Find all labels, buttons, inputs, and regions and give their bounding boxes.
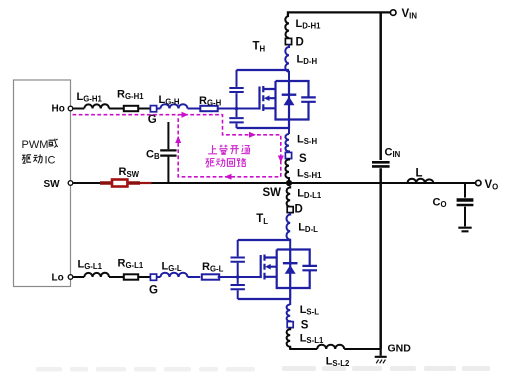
magenta drive loop dashed path bbox=[73, 115, 281, 177]
loop arrow left (bottom) bbox=[225, 174, 232, 180]
label 上管开通 bbox=[208, 145, 250, 155]
top wire to VIN bbox=[287, 12, 391, 16]
inductor LD-L1 bbox=[287, 186, 291, 207]
svg-text:S: S bbox=[301, 320, 309, 332]
wire Ho to LG-H1 bbox=[73, 108, 84, 110]
MOSFET TL symbol bbox=[261, 255, 277, 280]
svg-text:L: L bbox=[416, 168, 423, 180]
body diode TL bbox=[283, 263, 298, 274]
capacitor Co bbox=[457, 198, 474, 201]
resistor RG-H1 bbox=[124, 106, 138, 111]
pin circle SW bbox=[68, 181, 73, 186]
wire LG-L1 to RG-L1 bbox=[109, 276, 124, 278]
MOSFET TH gate cap column bbox=[229, 70, 243, 128]
MOSFET TH inner rect bbox=[276, 81, 309, 120]
VIN rail vertical bbox=[379, 12, 382, 349]
capacitor Co branch wire bbox=[464, 183, 466, 226]
inductor LG-H1 bbox=[84, 104, 109, 108]
wire G to LG-H bbox=[157, 108, 161, 110]
wire RG-L1 to node G lower bbox=[138, 276, 150, 278]
inductor LG-H bbox=[161, 104, 188, 108]
resistor RG-H bbox=[200, 106, 217, 111]
MOSFET TL bottom rail bbox=[238, 298, 291, 300]
inductor LG-L1 bbox=[84, 273, 109, 277]
wire LG-H1 to RG-H1 bbox=[109, 108, 124, 110]
PWM driver IC box bbox=[14, 80, 71, 287]
ground symbol at Co bbox=[458, 228, 471, 232]
resistor RSW body bbox=[112, 180, 127, 187]
body diode TH bbox=[282, 95, 297, 106]
junction dot gate TL bbox=[236, 275, 240, 279]
wire LG-H to RG-H bbox=[188, 108, 201, 110]
capacitor CIN bbox=[372, 162, 390, 166]
faint watermark row bbox=[36, 366, 490, 372]
Vo terminal circle bbox=[476, 180, 481, 185]
wire RG-L to gate network lower bbox=[218, 276, 261, 278]
node D square (lower) bbox=[287, 207, 293, 213]
loop arrow right (mid) bbox=[249, 132, 256, 138]
junction dot gate TH bbox=[235, 107, 239, 111]
wire LG-L to RG-L bbox=[188, 276, 201, 278]
VIN terminal circle bbox=[390, 10, 396, 16]
node S square (upper) bbox=[285, 152, 291, 158]
inductor LD-H bbox=[285, 44, 289, 81]
output cap TL (Cds) bbox=[302, 266, 317, 270]
svg-text:S: S bbox=[299, 153, 307, 165]
resistor RG-L bbox=[202, 274, 219, 279]
MOSFET TH top rail bbox=[237, 69, 290, 71]
drain-source vertical through TL bbox=[289, 250, 291, 300]
SW junction dot bbox=[286, 180, 292, 186]
wire L to Vo bbox=[434, 182, 476, 184]
resistor RG-L1 bbox=[124, 274, 138, 279]
pin circle Lo bbox=[68, 275, 73, 280]
node S square (lower) bbox=[287, 322, 293, 328]
label 驱动回路 bbox=[206, 158, 247, 167]
node D square (upper) bbox=[285, 38, 291, 44]
inductor LS-L bbox=[287, 305, 291, 322]
svg-text:SW: SW bbox=[44, 179, 61, 190]
MOSFET TH symbol bbox=[260, 86, 276, 111]
wire LS-L2 to GND bbox=[344, 348, 381, 350]
svg-text:SW: SW bbox=[263, 187, 282, 199]
output cap TH (Cds) bbox=[301, 97, 316, 101]
svg-text:G: G bbox=[148, 114, 157, 126]
inductor LD-H1 bbox=[285, 16, 289, 38]
wire RG-H to gate network bbox=[218, 108, 260, 110]
wire Lo to LG-L1 bbox=[73, 276, 84, 278]
wire TH source down bbox=[288, 128, 290, 134]
inductor LS-L2 bbox=[317, 345, 344, 349]
pin circle Ho bbox=[68, 106, 73, 111]
MOSFET TH bottom rail bbox=[237, 127, 290, 129]
drain-source vertical through TH bbox=[288, 81, 290, 128]
MOSFET TL top rail bbox=[238, 239, 291, 241]
capacitor CB bbox=[160, 122, 176, 183]
svg-text:G: G bbox=[149, 285, 158, 297]
bottom wire to LS-L2 bbox=[290, 347, 317, 349]
MOSFET TH body arrow bbox=[264, 95, 270, 101]
label 驱动IC bbox=[22, 154, 56, 166]
inductor LS-H1 bbox=[285, 158, 289, 183]
GND junction and symbol bbox=[375, 349, 387, 357]
MOSFET TL body arrow bbox=[265, 264, 271, 270]
svg-text:D: D bbox=[296, 37, 304, 49]
label PWM或 bbox=[22, 139, 58, 151]
inductor L (output) bbox=[408, 179, 434, 183]
SW wire from IC bbox=[73, 182, 457, 184]
inductor LG-L bbox=[161, 273, 188, 277]
wire RG-H1 to node G bbox=[138, 108, 150, 110]
svg-text:D: D bbox=[295, 204, 303, 216]
svg-text:Lo: Lo bbox=[52, 272, 64, 283]
svg-text:PWM: PWM bbox=[22, 139, 49, 151]
inductor LS-L1 bbox=[287, 328, 291, 349]
resistor RSW leads bbox=[100, 181, 140, 184]
inductor LD-L bbox=[287, 213, 291, 249]
svg-text:IC: IC bbox=[45, 154, 56, 166]
loop arrow down bbox=[278, 156, 284, 163]
wire G to LG-L bbox=[157, 276, 161, 278]
svg-text:GND: GND bbox=[388, 343, 412, 355]
MOSFET TL inner rect bbox=[277, 250, 310, 289]
node G square (upper) bbox=[150, 106, 156, 112]
node G square (lower) bbox=[150, 274, 156, 280]
MOSFET TL gate cap column bbox=[231, 240, 245, 299]
loop arrow right (top) bbox=[182, 112, 189, 118]
svg-text:Ho: Ho bbox=[52, 104, 65, 115]
inductor LS-H bbox=[285, 134, 289, 152]
loop arrow up bbox=[175, 136, 181, 143]
wire TL source down bbox=[289, 299, 291, 305]
